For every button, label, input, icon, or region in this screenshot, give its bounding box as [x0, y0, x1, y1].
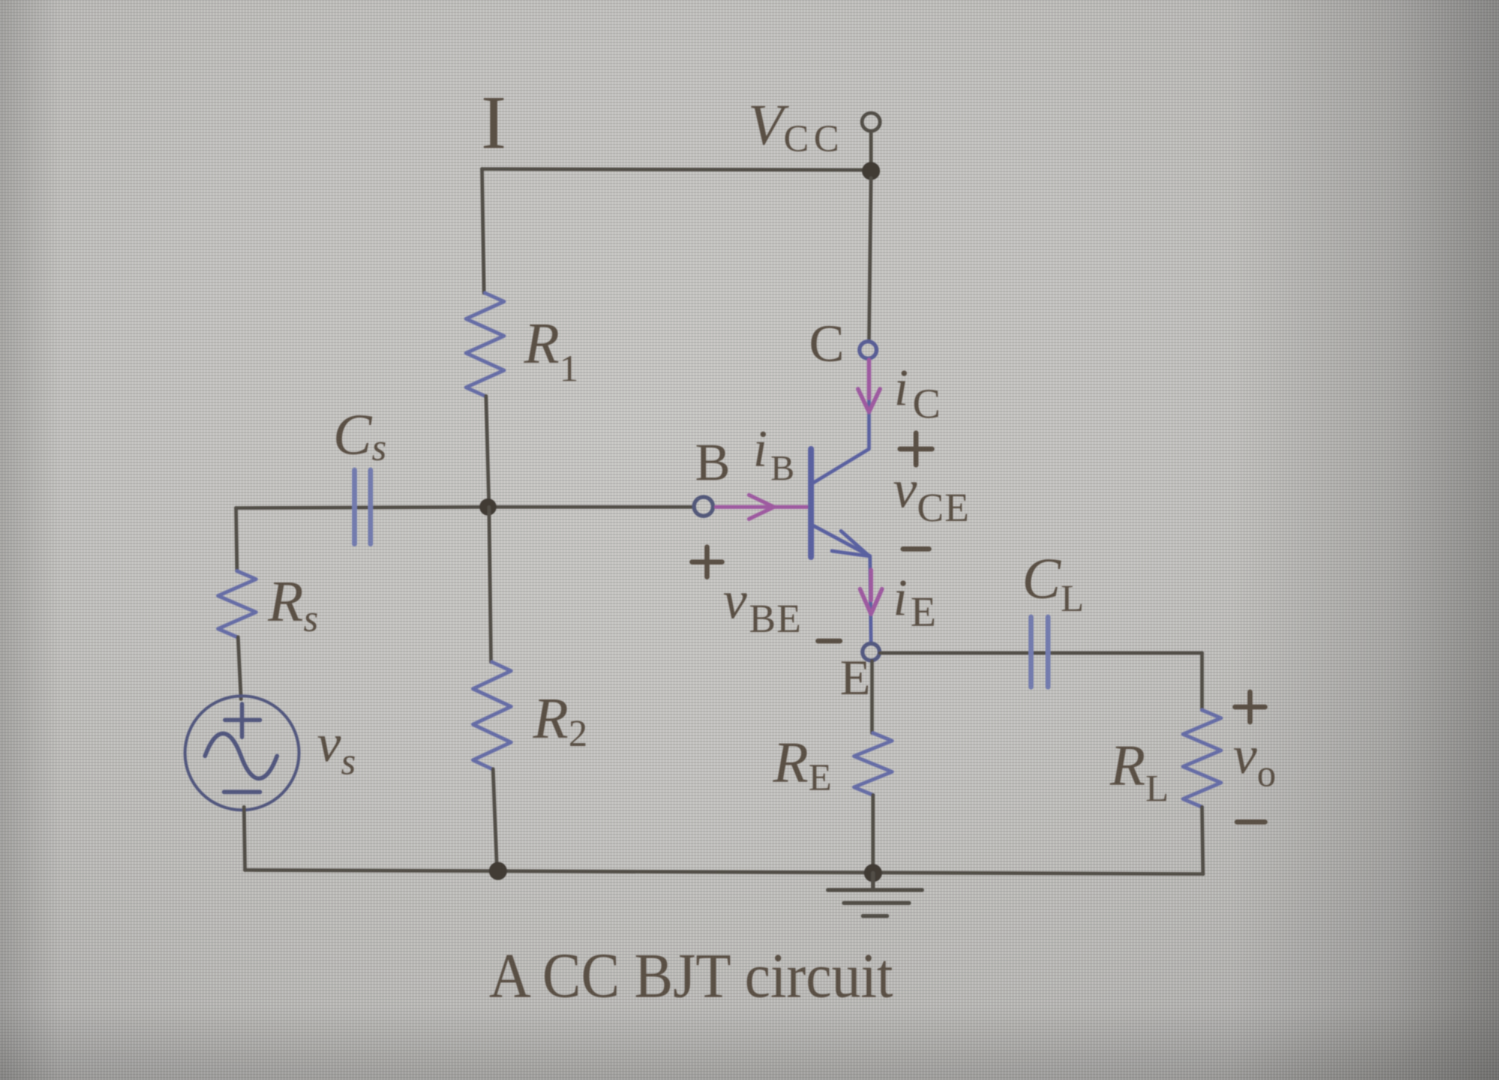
- node B terminal circle: [694, 497, 713, 516]
- wire left column top (Vcc rail to R1): [482, 169, 484, 293]
- source vs sine: [205, 734, 277, 779]
- node E terminal circle: [863, 644, 880, 661]
- node C terminal circle: [860, 342, 877, 359]
- junction R2 bottom node: [489, 862, 507, 880]
- resistor Rs: [218, 571, 256, 637]
- junction ground node: [864, 864, 882, 882]
- minus sign vBE: [818, 639, 840, 644]
- source vs plus: [225, 704, 260, 737]
- wire collector lead: [813, 359, 869, 483]
- junction base node: [480, 499, 497, 516]
- resistor RE: [854, 733, 892, 795]
- transistor Q1 emitter lead: [814, 526, 871, 643]
- plus sign vCE: [900, 433, 932, 465]
- wire base node down to R2: [489, 507, 491, 662]
- transistor Q1 bar: [808, 449, 814, 557]
- wire right column down to RL: [1200, 653, 1204, 710]
- wire base rail left of Cs: [236, 507, 489, 508]
- wire RL to bottom rail: [1202, 807, 1203, 874]
- minus sign vo: [1237, 820, 1265, 825]
- capacitor CL: [1031, 617, 1048, 687]
- wire RE to ground rail: [871, 795, 875, 871]
- wire Rs to source vs: [238, 637, 241, 699]
- ground: [828, 873, 922, 916]
- transistor Q1 emitter arrowhead: [832, 531, 868, 556]
- wire R2 to bottom rail: [493, 769, 497, 871]
- resistor R2: [473, 662, 511, 769]
- terminal Vcc circle: [862, 113, 880, 131]
- wire left column to Rs: [236, 508, 237, 571]
- source vs circle: [185, 696, 299, 810]
- wire bottom rail: [245, 870, 1203, 874]
- current arrow iE: [860, 570, 882, 614]
- plus sign vBE: [692, 547, 722, 577]
- wire E node to CL: [880, 651, 1202, 655]
- wire E to RE: [870, 661, 874, 733]
- current arrow iB: [716, 495, 807, 519]
- wire R1 to base node: [486, 396, 489, 507]
- minus sign vCE: [903, 547, 929, 552]
- source vs minus: [224, 790, 260, 794]
- wire Vcc column down to C terminal: [869, 178, 871, 341]
- junction Vcc node: [862, 162, 880, 180]
- resistor R1: [466, 293, 504, 396]
- wire top rail: [482, 169, 871, 170]
- current arrow iC: [858, 360, 880, 412]
- capacitor Cs: [355, 470, 371, 544]
- wire Vcc stub: [869, 132, 873, 165]
- resistor RL: [1183, 710, 1221, 807]
- wire vs to bottom rail: [244, 807, 245, 870]
- wire base node to B terminal: [489, 505, 694, 509]
- plus sign vo: [1235, 692, 1265, 722]
